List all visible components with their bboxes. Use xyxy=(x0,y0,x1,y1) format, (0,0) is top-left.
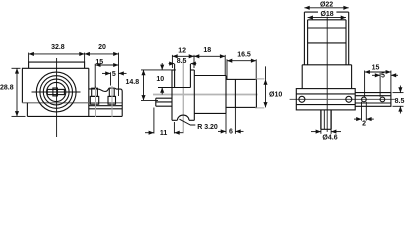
svg-text:2: 2 xyxy=(362,121,366,128)
svg-text:14.8: 14.8 xyxy=(125,79,139,86)
svg-text:Ø18: Ø18 xyxy=(320,11,333,18)
svg-text:8.5: 8.5 xyxy=(177,58,187,65)
svg-text:5: 5 xyxy=(112,71,116,78)
svg-text:11: 11 xyxy=(160,130,168,137)
svg-text:18: 18 xyxy=(203,47,211,54)
svg-text:16.5: 16.5 xyxy=(237,52,251,59)
svg-text:20: 20 xyxy=(98,44,106,51)
svg-text:Ø22: Ø22 xyxy=(320,1,333,8)
svg-text:8.5: 8.5 xyxy=(395,98,405,105)
svg-text:12: 12 xyxy=(178,48,186,55)
svg-text:6: 6 xyxy=(229,129,233,136)
svg-text:32.8: 32.8 xyxy=(51,44,65,51)
svg-text:R 3.20: R 3.20 xyxy=(197,124,218,131)
svg-text:Ø4.6: Ø4.6 xyxy=(322,135,337,142)
svg-text:15: 15 xyxy=(95,59,103,66)
svg-text:10: 10 xyxy=(156,76,164,83)
svg-text:28.8: 28.8 xyxy=(0,85,14,92)
svg-text:5: 5 xyxy=(381,73,385,80)
svg-text:Ø10: Ø10 xyxy=(269,92,282,99)
svg-text:15: 15 xyxy=(372,65,380,72)
